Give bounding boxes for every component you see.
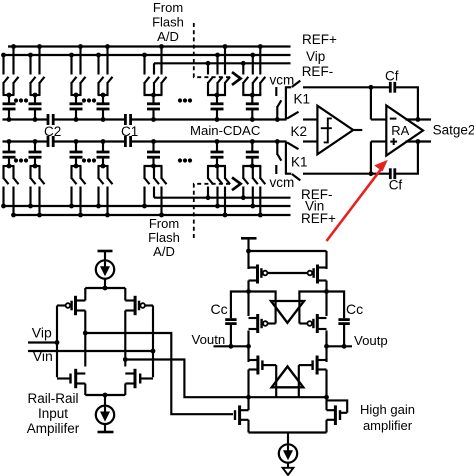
CDAC cell bottom x=9 — [1, 139, 18, 217]
wire Voutn — [214, 345, 249, 347]
svg-text:Cf: Cf — [385, 69, 399, 84]
wire Vin input — [28, 350, 153, 352]
comparator hysteresis symbol — [321, 118, 332, 142]
wire left gate vertical — [56, 306, 58, 378]
net REF- top bus line (starts at elbow of cell x=153.5) — [154, 62, 291, 64]
wire left drain vertical — [84, 311, 86, 367]
wire CDAC bottom rail segment 2 — [54, 140, 125, 142]
svg-text:A/D: A/D — [153, 244, 175, 259]
junction bottom K1 wire / Cf loop — [369, 171, 374, 176]
wire right branch top — [325, 251, 327, 269]
wire right PMOS source elbow — [124, 288, 126, 301]
wire current sink to supply bar — [104, 424, 106, 432]
switch K1 (top) — [285, 81, 300, 120]
wire NMOS common source bar — [85, 394, 125, 396]
CDAC cell top x=252.3 (3 switches) — [241, 44, 265, 122]
dots ellipsis bottom section1 — [14, 158, 28, 162]
wire gates cross-connect top pair — [267, 272, 307, 274]
junction left output — [83, 331, 88, 336]
net REF- bottom bus line — [154, 197, 291, 199]
svg-text:Cc: Cc — [346, 301, 363, 317]
net REF+ bottom bus line — [14, 214, 291, 216]
dots ellipsis top section3 — [178, 98, 192, 102]
wire Cc left to Voutn — [230, 325, 232, 347]
junction Voutn — [246, 344, 251, 349]
svg-text:Vip: Vip — [306, 49, 325, 64]
svg-text:Rail-Rail: Rail-Rail — [27, 391, 78, 406]
CDAC cell bottom x=252.3 (3 switches) — [241, 139, 265, 217]
dashed arrowhead bottom — [232, 177, 241, 190]
junction common source — [103, 286, 108, 291]
junction Voutn / Cc — [229, 344, 234, 349]
dots ellipsis top section1 — [14, 98, 28, 102]
dashed control line from top Flash A/D — [194, 23, 231, 77]
CDAC cell top x=35 — [28, 44, 44, 122]
red arrow pointing at RA — [327, 160, 388, 241]
wire comparator - input — [303, 140, 318, 142]
wire Cf top loop right side — [395, 87, 418, 119]
supply bar (rail-rail amp top) — [98, 250, 113, 253]
svg-text:Input: Input — [38, 406, 68, 421]
svg-text:Vip: Vip — [32, 325, 52, 341]
dots ellipsis bottom section3 — [178, 158, 192, 162]
junction top K1 wire / Cf loop — [369, 85, 374, 90]
switch K2 top arm — [287, 112, 299, 119]
current source I1 (rail-rail top) — [96, 260, 114, 278]
wire right output to high-gain amp (staircase) — [125, 360, 248, 398]
wire RA output line top — [406, 118, 432, 120]
svg-text:From: From — [149, 216, 179, 231]
wire RA output line bottom — [406, 140, 432, 142]
CDAC cell top x=76 — [69, 44, 85, 122]
dots ellipsis top section2 — [82, 98, 96, 102]
wire left output to high-gain amp (staircase) — [85, 333, 233, 414]
svg-text:From: From — [153, 0, 183, 15]
CDAC cell top x=103 — [96, 44, 112, 122]
svg-text:vcm: vcm — [270, 175, 295, 190]
wire RA + input — [371, 140, 386, 142]
wire REF- bottom elbow into cell 153.5 — [154, 197, 156, 198]
wire comparator output — [353, 129, 362, 131]
wire supply to current source — [104, 251, 106, 261]
wire current source to PMOS sources — [104, 278, 106, 288]
wire RA - input — [371, 118, 386, 120]
transistor M3 NMOS left — [57, 369, 85, 388]
junction RA output- / feedback — [416, 139, 421, 144]
wire right branch segment 4 — [325, 370, 327, 398]
svg-text:REF+: REF+ — [301, 211, 336, 226]
transistor M8 PMOS mid-right — [299, 314, 326, 333]
current source I2 (rail-rail tail) — [96, 406, 114, 424]
net Vip top bus line — [2, 54, 291, 56]
wire bottom source bar — [249, 431, 327, 433]
junction Vip / left gates — [55, 340, 60, 345]
wire tail to current sink — [104, 395, 106, 406]
wire right branch segment 2 — [325, 281, 327, 317]
capacitor Cc (right) — [338, 320, 349, 324]
wire CDAC bottom rail segment 3 — [131, 140, 286, 142]
label High gain amplifier — [360, 402, 415, 433]
label From Flash A/D (bottom) — [148, 216, 180, 259]
CDAC cell bottom x=76 — [69, 139, 85, 217]
svg-text:RA: RA — [391, 123, 409, 138]
CDAC cell bottom x=217 (3 switches) — [206, 139, 230, 217]
capacitor C1 (bottom rail series cap) — [125, 136, 130, 147]
supply bar (high-gain amp top) — [241, 237, 257, 240]
wire Cc right to Voutp — [343, 325, 345, 347]
wire Voutp — [327, 345, 353, 347]
switch vcm (bottom) — [275, 139, 281, 174]
CDAC cell bottom x=153.5 (3 switches) — [142, 139, 166, 217]
wire left branch segment 2 — [247, 281, 249, 317]
wire right drain vertical — [124, 311, 126, 367]
amplifier triangle (down) class-AB driver — [271, 301, 304, 323]
wire right branch segment 3 — [325, 331, 327, 363]
transistor M12 NMOS bottom-right (diode connected) — [327, 397, 348, 432]
svg-text:Voutp: Voutp — [354, 333, 388, 348]
net REF+ top bus line — [8, 45, 291, 47]
wire left NMOS source elbow — [84, 384, 86, 396]
svg-text:vcm: vcm — [270, 73, 295, 88]
svg-text:Satge2: Satge2 — [433, 122, 474, 137]
svg-text:Voutn: Voutn — [192, 332, 226, 347]
transistor M10 NMOS mid-right — [299, 356, 327, 398]
svg-text:K1: K1 — [291, 155, 308, 170]
wire comparator + input — [303, 118, 318, 120]
wire top rail — [249, 250, 327, 252]
transistor M5 PMOS top-left — [249, 265, 268, 284]
label From Flash A/D (top) — [152, 0, 184, 44]
junction tail — [103, 393, 108, 398]
svg-text:Flash: Flash — [152, 15, 184, 30]
capacitor Cf (top) — [390, 82, 395, 93]
switch K2 bottom arm — [287, 142, 299, 149]
svg-text:A/D: A/D — [157, 29, 179, 44]
wire PMOS common source bar — [85, 287, 125, 289]
ground symbol — [283, 468, 294, 475]
capacitor Cf (bottom) — [390, 168, 395, 179]
svg-text:REF-: REF- — [302, 64, 334, 79]
dashed control line to bottom Flash A/D — [194, 184, 231, 238]
junction right branch / Cc tap — [324, 289, 329, 294]
RA minus sign — [390, 118, 397, 120]
dashed arrowhead top — [232, 72, 241, 85]
supply bar (rail-rail amp bottom) — [98, 431, 114, 434]
svg-text:High gain: High gain — [360, 402, 415, 417]
transistor M6 PMOS top-right — [308, 265, 327, 284]
wire left branch segment 3 — [247, 331, 249, 363]
wire top K1 to RA — [303, 86, 390, 88]
dots ellipsis bottom section2 — [82, 158, 96, 162]
CDAC cell top x=153.5 (3 switches) — [142, 44, 166, 122]
transistor M2 PMOS right — [125, 296, 153, 315]
transistor M11 NMOS bottom-left — [235, 397, 249, 432]
wire Cc right tap elbow — [327, 292, 345, 319]
CDAC cell (switches + capacitor) top x=9 — [1, 44, 18, 122]
svg-text:Ampilifer: Ampilifer — [27, 421, 80, 436]
transistor M9 NMOS mid-left — [249, 356, 277, 398]
svg-text:amplifier: amplifier — [363, 418, 413, 433]
junction Voutp / Cc — [342, 344, 347, 349]
transistor M4 NMOS right — [125, 369, 153, 388]
switch vcm (top) — [275, 87, 281, 122]
CDAC cell bottom x=35 — [28, 139, 44, 217]
wire left branch top — [247, 251, 249, 269]
wire left branch segment 4 — [247, 370, 249, 398]
wire REF- top elbow into cell 153.5 — [154, 63, 156, 64]
wire right cascode gate tap — [299, 292, 326, 324]
comparator U1 (with hysteresis) — [317, 106, 353, 155]
svg-text:C2: C2 — [44, 124, 61, 139]
junction supply / top rail — [246, 249, 251, 254]
wire CDAC top rail segment 2 — [54, 118, 125, 120]
capacitor C2 (top rail series cap) — [48, 114, 53, 125]
net Vin bottom bus line — [2, 205, 291, 207]
transistor M1 PMOS left — [57, 296, 85, 315]
switch K1 (bottom) — [285, 142, 300, 181]
capacitor C2 (bottom rail series cap) — [48, 136, 53, 147]
svg-text:Main-CDAC: Main-CDAC — [190, 123, 261, 138]
junction left branch / bottom rail — [246, 395, 251, 400]
svg-text:K2: K2 — [291, 124, 308, 139]
junction RA output+ / feedback — [416, 117, 421, 122]
wire left cascode gate tap — [249, 292, 276, 324]
CDAC cell bottom x=103 — [96, 139, 112, 217]
junction Voutp — [324, 344, 329, 349]
wire right NMOS source elbow — [124, 384, 126, 396]
capacitor Cc (left) — [225, 320, 236, 324]
svg-text:Flash: Flash — [148, 230, 180, 245]
wire to ground — [287, 462, 289, 468]
junction Vin / right gates — [151, 349, 156, 354]
capacitor C1 (top rail series cap) — [125, 114, 130, 125]
wire supply stub — [247, 238, 249, 251]
wire Cc left tap elbow — [231, 292, 249, 319]
svg-text:Cf: Cf — [389, 178, 403, 193]
wire bottom K1 to RA — [303, 173, 390, 175]
transistor M7 PMOS mid-left — [249, 314, 276, 333]
wire right gate vertical — [152, 306, 154, 378]
wire Cf bottom loop right side — [395, 142, 418, 174]
wire left PMOS source elbow — [84, 288, 86, 301]
svg-text:Cc: Cc — [211, 301, 228, 317]
svg-text:K1: K1 — [294, 91, 311, 106]
wire CDAC top rail segment 3 — [131, 118, 286, 120]
wire bottom rail continues to right branch — [249, 396, 327, 398]
junction right output — [123, 357, 128, 362]
label Rail-Rail Input Ampilifer — [27, 391, 80, 436]
wire CDAC top rail segment 1 — [3, 118, 48, 120]
amplifier triangle (up) class-AB driver — [272, 367, 304, 388]
op-amp RA — [386, 106, 423, 156]
CDAC cell top x=217 (3 switches) — [206, 44, 230, 122]
current source I3 (high-gain tail) — [279, 444, 297, 462]
wire tail stub — [287, 433, 289, 446]
wire Vip input — [28, 341, 57, 343]
junction right branch / bottom rail — [324, 395, 329, 400]
wire Cf bottom feedback loop left vertical — [370, 142, 372, 174]
junction left branch / Cc tap — [246, 289, 251, 294]
svg-text:REF+: REF+ — [302, 32, 337, 47]
svg-text:C1: C1 — [121, 124, 138, 139]
wire Cf top feedback loop left vertical — [370, 87, 372, 119]
RA plus sign — [390, 138, 397, 145]
wire CDAC bottom rail segment 1 — [3, 140, 48, 142]
